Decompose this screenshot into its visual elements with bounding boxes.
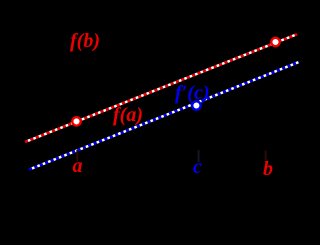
dropline above c (198, 150, 200, 162)
dropline above a (76, 150, 78, 162)
svg-text:f(b): f(b) (70, 30, 100, 52)
dropline above b (265, 151, 267, 161)
point (c, f(c)) open blue circle (192, 101, 200, 109)
point (a, f(a)) open red circle (72, 117, 80, 125)
svg-text:b: b (263, 158, 273, 180)
svg-text:f(a): f(a) (113, 104, 143, 126)
tangent line (blue/white dashed) (29, 62, 299, 170)
secant line (red/white dashed) (25, 34, 297, 142)
point (b, f(b)) open red circle (271, 38, 279, 46)
svg-text:f′(c): f′(c) (175, 82, 209, 104)
svg-text:a: a (73, 155, 83, 177)
svg-text:c: c (193, 156, 202, 178)
